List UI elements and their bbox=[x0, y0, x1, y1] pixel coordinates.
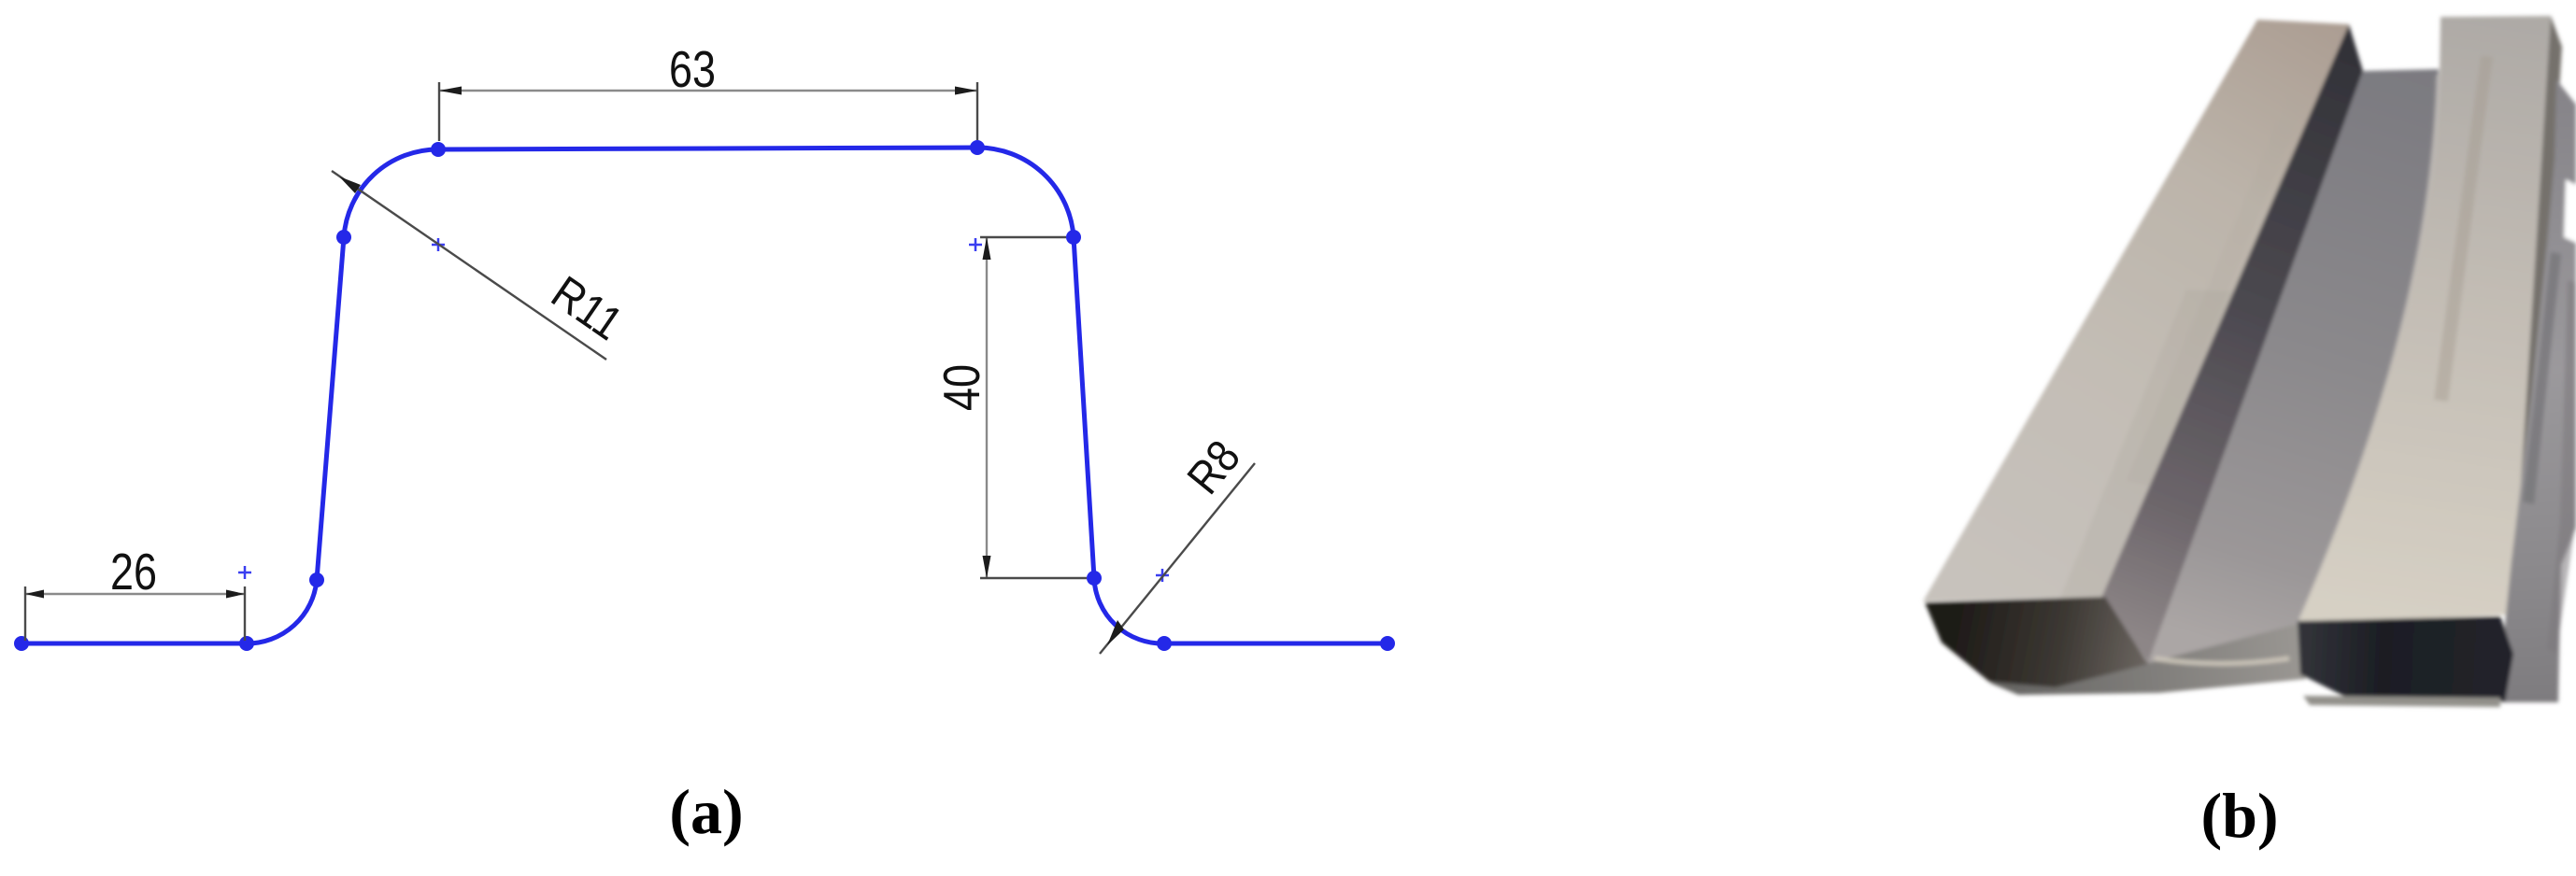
vertex dot P9 bbox=[1380, 636, 1395, 651]
vertex dot P1 bbox=[239, 636, 254, 651]
vertex dot P3 bbox=[336, 230, 351, 245]
dimension 26 bbox=[25, 543, 245, 641]
photo: dark hollow under left face bbox=[1925, 597, 2148, 687]
photo: groove near-end bright lip bbox=[2155, 658, 2289, 664]
center mark lower-right bend R8 bbox=[1156, 569, 1169, 582]
svg-text:(b): (b) bbox=[2200, 780, 2278, 851]
vertex dot P0 bbox=[14, 636, 29, 651]
photo: ground shadow band left bbox=[1989, 621, 2306, 695]
wire profile outline (blue hat-channel sketch) bbox=[21, 148, 1388, 643]
photo: right face edge sliver bbox=[2512, 16, 2562, 616]
photo: left face dark diagonal band bbox=[2060, 290, 2233, 598]
svg-text:26: 26 bbox=[110, 543, 157, 600]
photo: bend highlight on groove right wall bbox=[2299, 75, 2438, 620]
vertex dot P7 bbox=[1087, 571, 1102, 586]
vertex dot P2 bbox=[309, 572, 324, 587]
photo: strip streak dark 1 bbox=[2523, 252, 2561, 504]
vertex dot P4 bbox=[431, 142, 446, 157]
photo: white notch in strip bbox=[2564, 179, 2576, 243]
svg-text:(a): (a) bbox=[669, 776, 743, 847]
dimension 40 bbox=[932, 237, 1087, 578]
photo: groove left wall bbox=[2102, 24, 2363, 663]
vertex dot P5 bbox=[970, 140, 985, 155]
photo: left top face bbox=[1923, 20, 2349, 601]
photo: jagged gray strip right bbox=[2498, 79, 2576, 702]
svg-text:63: 63 bbox=[669, 40, 716, 98]
photo: left face streak bbox=[2126, 93, 2308, 486]
photo: strip streak dark 2 bbox=[2547, 280, 2576, 654]
vertex dot P8 bbox=[1157, 636, 1172, 651]
photo: dark band bottom right bbox=[2298, 616, 2513, 701]
dimension 63 bbox=[439, 40, 977, 141]
photo: right face streak bbox=[2434, 56, 2493, 402]
center mark lower-left bend bbox=[238, 566, 251, 579]
photo: gray fringe below dark band bbox=[2303, 696, 2500, 707]
center mark top-right bend bbox=[969, 238, 982, 251]
vertex dot P6 bbox=[1066, 230, 1081, 245]
photo: right top face bbox=[2298, 16, 2551, 624]
photo: groove bottom and right wall bbox=[2148, 69, 2439, 663]
center mark top-left bend R11 bbox=[432, 238, 445, 251]
leader R8 bbox=[1100, 431, 1255, 654]
leader R11 bbox=[332, 171, 632, 360]
svg-text:40: 40 bbox=[932, 364, 990, 411]
